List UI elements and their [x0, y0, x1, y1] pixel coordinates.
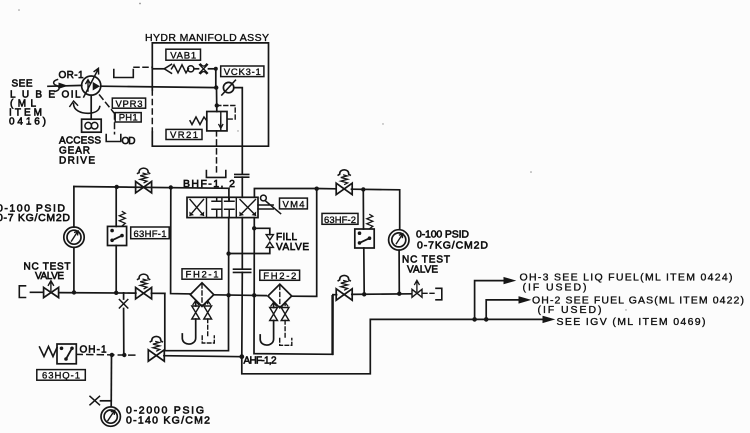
node: 63HF-2 branch on top right line: [361, 187, 365, 191]
svg-text:VALVE: VALVE: [407, 265, 438, 276]
tank symbol under VR21: [206, 171, 225, 178]
pressure switch 63HQ-1: [57, 344, 76, 364]
wire: center drop below valve with capacitor: [241, 218, 244, 357]
dashed OH-1 line: [76, 353, 136, 356]
label box VCK3-1: [221, 66, 264, 77]
check valve VCK3-1: [223, 82, 233, 92]
svg-text:SEE IGV (ML ITEM 0469): SEE IGV (ML ITEM 0469): [557, 316, 706, 328]
node: enclosure top junction: [315, 187, 319, 191]
node AHF-1,2: [239, 354, 244, 359]
svg-text:VALVE: VALVE: [276, 242, 309, 253]
wire: top right line to gauge corner: [317, 189, 400, 230]
rotation arc arrow: [74, 104, 100, 114]
node: FH2-1 feed branch on top line: [169, 185, 173, 189]
access gear drive box with infinity: [82, 119, 102, 132]
break squiggle on inlet line: [54, 80, 60, 92]
wire: enclosure right edge down to FH2-2 outlet: [292, 189, 317, 297]
wire: pump to access gear drive: [90, 95, 92, 119]
NC test valve (right) bowtie: [412, 289, 422, 297]
wire: filter interconnect line: [214, 294, 266, 297]
arrowhead SEE IGV: [543, 316, 554, 322]
svg-text:VM4: VM4: [283, 199, 305, 210]
label box 63HF-1: [131, 227, 170, 239]
label box PH1: [115, 113, 141, 122]
test valve (dome) on top right line: [336, 170, 352, 195]
bottom left line with NC test valve: [31, 292, 165, 293]
svg-text:OR-1: OR-1: [59, 70, 84, 81]
wire: FH2-1 outlet run below valve: [228, 218, 230, 296]
pressure gauge 0-2000 PSIG: [101, 407, 120, 426]
pump P (OR-1) circle: [82, 76, 101, 95]
pressure switch 63HF-2: [355, 229, 374, 248]
wire VAB1 drop to main line: [215, 69, 217, 88]
svg-text:OD: OD: [122, 136, 136, 147]
dashed pilot loop of VR21: [217, 106, 235, 120]
node: fill valve drain junction: [226, 251, 230, 255]
node: 63HF-1 branch on bottom line: [114, 291, 118, 295]
wire: right drop below valve to FH2-2 inlet: [253, 218, 255, 296]
FH2-1 right drain dashed to tank: [207, 319, 209, 336]
wire: FH2-1 feed drop: [171, 188, 191, 294]
scan specks: [18, 3, 627, 423]
FH2-1 left drain J hook: [182, 319, 195, 344]
node: 63HF-2 branch on bottom right line: [362, 292, 366, 296]
label box FH2-2: [260, 270, 300, 280]
node: OH-3 branch junction: [472, 317, 477, 322]
dashes to capped port bracket (right): [423, 292, 434, 294]
pump variable arrow diagonal: [84, 68, 99, 97]
wire: left vertical to dP gauge: [73, 187, 75, 228]
wire: corner down from bottom right line to enclosure bottom: [332, 295, 334, 355]
label box VAB1: [166, 49, 201, 60]
wire VR21 feed: [216, 88, 218, 112]
node: main supply junction: [214, 85, 218, 89]
test valve (dome+spring+bowtie) on top line: [136, 168, 152, 193]
dashed line VAB1 to tank (left): [134, 66, 152, 68]
fill valve branch: [229, 228, 270, 253]
spring above 63HF-2: [367, 215, 373, 229]
svg-text:FH2-1: FH2-1: [186, 270, 219, 281]
node: fill valve feed junction: [252, 226, 256, 230]
FH2-2 right drain dashed to tank: [284, 321, 286, 339]
node: orifice stub junction on OH-1 line: [122, 353, 126, 357]
svg-text:OH-1: OH-1: [80, 345, 107, 356]
wire OH-1 to AHF junction: [164, 356, 242, 357]
wire: orifice stub down from bottom line: [123, 293, 125, 355]
spring above 63HF-1: [119, 212, 125, 227]
wire: enclosure top line from valve to 63HF-2 branch: [254, 189, 316, 198]
wire: OH-3 branch: [475, 281, 507, 320]
NC test valve (left) bowtie: [44, 287, 59, 297]
svg-text:SEE: SEE: [12, 79, 33, 90]
svg-text:OIL: OIL: [62, 90, 81, 101]
wire: lube oil inlet line to pump: [48, 84, 82, 87]
tank symbol (VAB1 drain): [114, 70, 134, 78]
closed-port symbols pair 2: [225, 197, 234, 217]
wire: 63HF-2 drop: [362, 189, 365, 294]
node: VAB1 branch junction: [214, 67, 218, 71]
BHF-1,2 directional valve body: [187, 197, 258, 217]
wire: FH2-1 bypass loop: [165, 293, 229, 350]
svg-text:63HQ-1: 63HQ-1: [42, 371, 80, 382]
node: 0-2000 gauge branch on OH-1 line: [110, 353, 114, 357]
node: gauge branch on bottom line: [72, 290, 76, 294]
lever VM4 symbol: [258, 201, 281, 214]
wire: FH2-2 bypass loop: [254, 295, 332, 354]
valve VAB1 symbol: arrow, spring, circle, orifice: [152, 68, 164, 70]
spring of VR21: [190, 117, 207, 125]
test valve (dome) on OH-1 line: [148, 336, 164, 361]
svg-text:VAB1: VAB1: [170, 51, 196, 62]
pump internal triangle: [93, 83, 99, 90]
left section crossed arrows: [190, 200, 204, 216]
label box 63HF-2: [322, 213, 358, 224]
FH2-2 left drain J hook: [260, 321, 273, 346]
orifice stub at gauge: [101, 400, 112, 402]
test valve (dome) on bottom right line: [336, 275, 352, 300]
svg-text:0-7 KG/CM2D: 0-7 KG/CM2D: [0, 212, 70, 224]
pump internal up-arrow: [86, 80, 90, 91]
svg-text:PH1: PH1: [119, 113, 138, 124]
node: FH2-1 outlet junction: [226, 293, 230, 297]
svg-text:0-140 KG/CM2: 0-140 KG/CM2: [126, 415, 210, 427]
manifold assy box: [152, 43, 268, 146]
label box VR21: [166, 129, 202, 139]
wire: AHF drop and IGV run: [242, 319, 547, 373]
svg-text:63HF-1: 63HF-1: [134, 229, 167, 240]
wire: main line to corner, down to BHF valve: [234, 88, 243, 174]
NC test valve up arrow (right): [415, 280, 420, 291]
svg-text:VCK3-1: VCK3-1: [224, 67, 261, 78]
tank symbol OD: [106, 135, 121, 142]
svg-text:VR21: VR21: [170, 130, 198, 141]
filter FH2-1 diamond: [190, 283, 214, 307]
left measurement loop: top line: [74, 187, 229, 189]
test valve (dome) on bottom line left: [136, 274, 152, 299]
bracket (capped test port, left): [19, 286, 25, 298]
pressure switch 63HF-1: [108, 226, 127, 245]
NC test valve up arrow: [48, 281, 53, 291]
right section crossed arrows: [240, 200, 256, 216]
OH-1 circuit: spring: [40, 347, 58, 357]
node: VR21 pilot junction: [215, 103, 219, 107]
FH2-1 drain valves: [193, 301, 198, 305]
bottom right line: [333, 293, 412, 296]
svg-text:63HF-2: 63HF-2: [324, 215, 356, 226]
label box 63HQ-1: [37, 370, 86, 381]
wire: gauge to bottom line: [73, 248, 75, 293]
svg-text:0-7KG/CM2D: 0-7KG/CM2D: [417, 240, 488, 252]
dashed drain from pump to OD tank: [100, 95, 115, 134]
svg-text:AHF-1,2: AHF-1,2: [244, 356, 277, 367]
svg-text:FH2-2: FH2-2: [263, 271, 296, 282]
wire: OH-2 branch: [486, 300, 522, 320]
FH2-2 drain valves: [271, 302, 276, 306]
label box FH2-1: [182, 269, 222, 279]
wire: gauge down to bottom right line: [398, 250, 400, 293]
label box VM4: [280, 198, 308, 209]
label box VPR3: [112, 98, 145, 108]
svg-text:BHF-1, 2: BHF-1, 2: [183, 178, 235, 190]
arrowhead into pump: [59, 83, 67, 88]
capacitor symbol on supply drop: [235, 174, 249, 177]
dP gauge 0-100 PSID (left): [64, 227, 84, 247]
wire: down from OH-1 to 0-2000 gauge: [110, 355, 112, 407]
node: FH2-2 inlet junction: [252, 293, 256, 297]
svg-text:VALVE: VALVE: [35, 271, 64, 282]
svg-text:DRIVE: DRIVE: [59, 156, 95, 167]
node: 63HF-1 branch on top line: [115, 185, 119, 189]
relief valve VR21 body: [207, 112, 227, 131]
dashed drain of VR21 to tank: [216, 131, 218, 172]
svg-text:HYDR MANIFOLD ASSY: HYDR MANIFOLD ASSY: [145, 32, 269, 44]
wire: 63HF-1 drop: [115, 187, 117, 293]
orifice X symbol: [119, 300, 127, 309]
filter FH2-2 diamond: [268, 284, 292, 308]
svg-text:VPR3: VPR3: [116, 99, 143, 110]
closed-port symbols pair 1: [212, 197, 221, 217]
node: OH-2 branch junction: [484, 317, 489, 322]
wire: valve top stem from left line: [228, 188, 230, 201]
node: gauge branch on bottom right line: [397, 292, 401, 296]
pump output wire to manifold: [101, 86, 217, 87]
dP gauge 0-100 PSID (right): [389, 230, 409, 250]
